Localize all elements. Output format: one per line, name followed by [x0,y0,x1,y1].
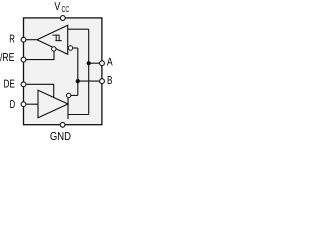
svg-text:V: V [54,1,60,13]
wire A junction to terminal A [89,62,102,64]
pin B terminal circle [100,79,105,84]
pin A terminal circle [100,61,105,66]
wire driver tip vertical [67,98,69,119]
hysteresis symbol inside receiver [52,35,59,41]
wire D pin to driver input [24,103,39,105]
wire B junction to terminal B [78,80,102,82]
svg-text:CC: CC [62,4,70,14]
svg-text:DE: DE [4,78,16,90]
wire DE pin to driver enable [24,84,54,97]
receiver inverting input bubble (B input) [68,46,72,50]
receiver op-amp R triangle [37,25,68,54]
svg-text:R: R [9,34,15,46]
wire /RE pin to enable stub [24,51,55,60]
pin GND terminal circle [60,122,65,127]
svg-text:B: B [107,75,113,87]
wire B bus to driver inverting bubble [70,94,78,96]
IC body box [24,18,102,125]
wire A bus vertical [88,29,90,114]
svg-text:A: A [107,57,113,69]
receiver enable bubble (inverting /RE) [52,47,56,51]
wire receiver A-input to A bus [68,28,89,30]
pin R terminal circle [21,37,26,42]
junction dot node B [76,79,80,83]
svg-text:/RE: /RE [0,52,15,64]
svg-text:GND: GND [50,131,71,142]
junction dot node A [87,61,91,65]
wire receiver B-input bubble to B bus [73,47,78,49]
pin /RE terminal circle [21,57,26,62]
pin DE terminal circle [21,82,26,87]
driver inverting output bubble [67,93,71,97]
wire R pin to receiver output [24,39,38,41]
pin D terminal circle [21,102,26,107]
wire A bus bottom to driver tip [68,114,89,116]
svg-text:D: D [10,99,16,111]
wire B bus vertical [77,48,79,95]
driver op-amp D triangle [38,90,68,118]
pin VCC terminal circle [60,16,65,21]
